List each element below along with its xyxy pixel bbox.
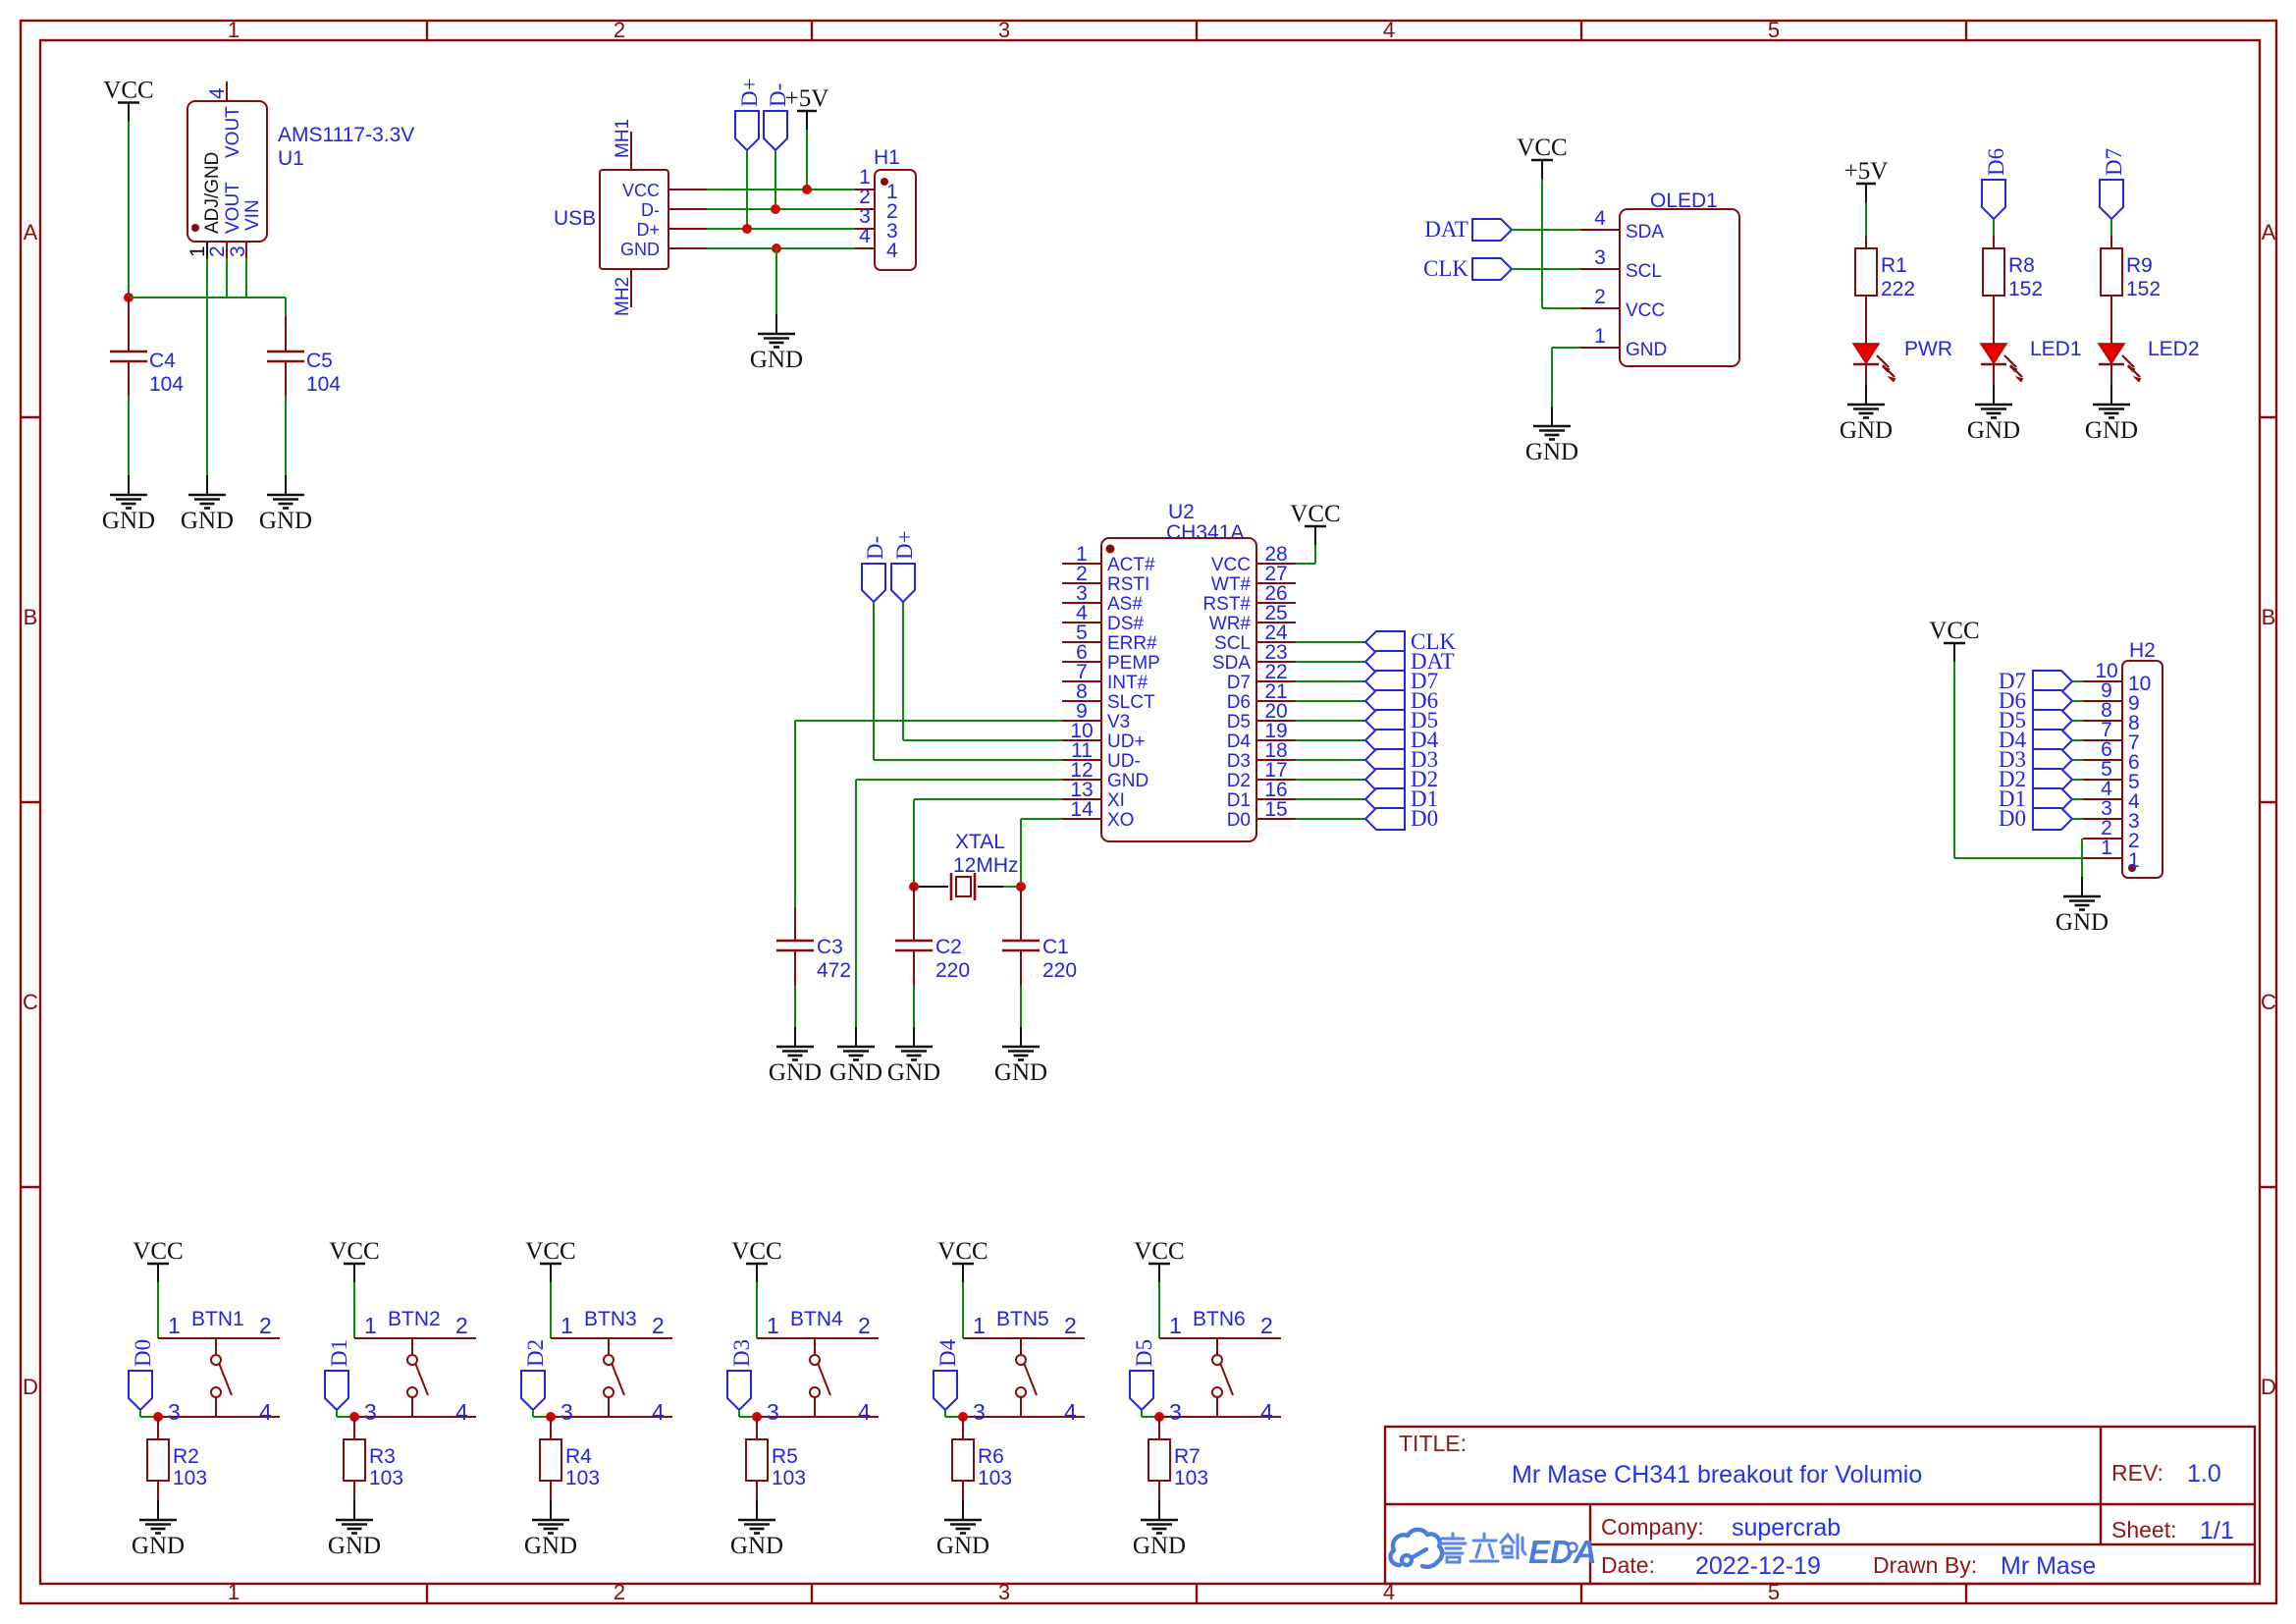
- pin 17 D2: [1256, 779, 1296, 781]
- pin 4 DS#: [1062, 622, 1101, 623]
- svg-text:4: 4: [652, 1399, 665, 1425]
- resistor R1 222: [1855, 236, 1915, 344]
- net flag D+ (U2): [891, 530, 917, 602]
- net flag D5 (H2): [1999, 708, 2072, 732]
- svg-text:D0: D0: [1227, 810, 1251, 831]
- svg-text:4: 4: [206, 87, 229, 99]
- net flag D4: [1365, 728, 1439, 752]
- wire: [1296, 661, 1365, 663]
- net flag D5: [1365, 708, 1438, 732]
- svg-text:D-: D-: [641, 200, 660, 220]
- svg-text:R2: R2: [173, 1445, 199, 1468]
- net flag D0: [1365, 806, 1438, 831]
- svg-text:1: 1: [228, 1580, 240, 1604]
- resistor R8 152: [1983, 236, 2043, 344]
- wire: [707, 189, 855, 190]
- svg-text:R1: R1: [1881, 254, 1907, 277]
- wire: [1542, 179, 1580, 308]
- pushbutton BTN5: [963, 1308, 1085, 1425]
- wire: [128, 396, 130, 475]
- net flag D3 (H2): [1999, 747, 2072, 772]
- svg-text:2: 2: [652, 1313, 665, 1338]
- svg-text:220: 220: [935, 959, 970, 982]
- svg-text:SDA: SDA: [1626, 222, 1664, 243]
- pin 1: [206, 242, 208, 258]
- wire: [1865, 202, 1867, 236]
- wire: [1158, 1282, 1160, 1338]
- svg-text:152: 152: [2008, 278, 2043, 300]
- ground: [2085, 385, 2138, 444]
- wire: [2072, 739, 2083, 741]
- svg-text:103: 103: [369, 1467, 403, 1489]
- net flag D6: [1982, 148, 2008, 219]
- junction: [771, 204, 780, 214]
- svg-text:D3: D3: [1227, 751, 1251, 772]
- svg-text:D5: D5: [1132, 1339, 1156, 1367]
- ground: [1133, 1500, 1186, 1559]
- svg-text:D2: D2: [523, 1339, 548, 1367]
- svg-text:Company:: Company:: [1601, 1514, 1704, 1540]
- svg-text:152: 152: [2126, 278, 2161, 300]
- net flag D+: [735, 78, 762, 150]
- svg-text:1: 1: [561, 1313, 573, 1338]
- svg-text:Sheet:: Sheet:: [2111, 1517, 2177, 1543]
- svg-text:INT#: INT#: [1107, 673, 1148, 693]
- wire: [2072, 779, 2083, 781]
- regulator U1 AMS1117-3.3V: [187, 81, 414, 258]
- pin 9: [2083, 700, 2122, 702]
- net flag D6 (H2): [1999, 688, 2072, 713]
- svg-text:D6: D6: [1984, 148, 2008, 176]
- svg-text:D7: D7: [1227, 673, 1251, 693]
- wire: [1296, 545, 1315, 564]
- wire: [2110, 219, 2112, 236]
- svg-text:4: 4: [1594, 207, 1606, 230]
- ground: [750, 314, 803, 373]
- wire: [2081, 839, 2083, 877]
- svg-text:103: 103: [173, 1467, 207, 1489]
- crystal XTAL 12MHz: [919, 831, 1019, 900]
- ground: [829, 1027, 882, 1086]
- pin 9 V3: [1062, 720, 1101, 722]
- net flag D1: [1365, 786, 1438, 811]
- resistor R6 103: [952, 1417, 1012, 1500]
- svg-text:3: 3: [168, 1399, 181, 1425]
- svg-text:4: 4: [1383, 18, 1395, 42]
- junction: [742, 224, 752, 234]
- wire: [128, 122, 130, 298]
- svg-text:VCC: VCC: [1211, 555, 1251, 575]
- net flag D-: [764, 83, 790, 150]
- wire: [1954, 662, 2083, 858]
- svg-text:3: 3: [767, 1399, 779, 1425]
- wire: [746, 150, 748, 229]
- wire: [1296, 739, 1365, 741]
- svg-text:R9: R9: [2126, 254, 2153, 277]
- ground: [1525, 406, 1578, 465]
- net flag D0 (H2): [1999, 806, 2072, 831]
- resistor R5 103: [746, 1417, 806, 1500]
- svg-text:GND: GND: [1107, 771, 1148, 791]
- svg-text:1: 1: [1169, 1313, 1182, 1338]
- pin 7: [2083, 739, 2122, 741]
- svg-text:1/1: 1/1: [2200, 1517, 2234, 1544]
- svg-text:103: 103: [978, 1467, 1012, 1489]
- svg-text:XO: XO: [1107, 810, 1134, 831]
- pin MH2: [630, 269, 632, 307]
- svg-text:D+: D+: [892, 530, 917, 560]
- pin 3: [2083, 818, 2122, 820]
- capacitor C2 220: [895, 887, 970, 986]
- svg-text:C2: C2: [935, 936, 962, 958]
- svg-text:R7: R7: [1174, 1445, 1201, 1468]
- svg-text:4: 4: [1260, 1399, 1273, 1425]
- svg-text:4: 4: [455, 1399, 468, 1425]
- pin 28 VCC: [1256, 563, 1296, 565]
- svg-text:2: 2: [259, 1313, 272, 1338]
- wire: [140, 1410, 158, 1417]
- pushbutton BTN1: [158, 1308, 280, 1425]
- net flag D3: [727, 1339, 754, 1410]
- svg-text:AS#: AS#: [1107, 594, 1143, 615]
- wire: [756, 1282, 758, 1338]
- resistor R4 103: [540, 1417, 600, 1500]
- wire: [2072, 818, 2083, 820]
- svg-text:GND: GND: [1626, 340, 1667, 360]
- svg-text:3: 3: [998, 1580, 1010, 1604]
- pin 10: [2083, 680, 2122, 682]
- power net VCC (BTN6): [1134, 1238, 1184, 1282]
- svg-text:GND: GND: [620, 240, 660, 259]
- svg-text:BTN4: BTN4: [790, 1308, 843, 1330]
- svg-text:14: 14: [1070, 798, 1094, 821]
- ground: [102, 475, 155, 534]
- svg-text:220: 220: [1042, 959, 1077, 982]
- wire: [1296, 779, 1365, 781]
- svg-text:BTN5: BTN5: [996, 1308, 1049, 1330]
- connector USB: [554, 119, 707, 316]
- svg-text:MH1: MH1: [613, 119, 633, 158]
- svg-text:D1: D1: [1227, 790, 1251, 811]
- net flag D4: [934, 1338, 960, 1410]
- junction: [349, 1412, 359, 1422]
- wire: [707, 228, 855, 230]
- svg-text:3: 3: [1169, 1399, 1182, 1425]
- svg-text:RST#: RST#: [1202, 594, 1251, 615]
- net flag D5: [1130, 1339, 1156, 1410]
- svg-text:1: 1: [767, 1313, 779, 1338]
- svg-text:3: 3: [1594, 246, 1606, 269]
- net flag CLK: [1365, 629, 1456, 654]
- svg-text:R5: R5: [772, 1445, 798, 1468]
- ground: [259, 475, 312, 534]
- pin 6 PEMP: [1062, 661, 1101, 663]
- svg-text:15: 15: [1264, 798, 1287, 821]
- power net VCC (BTN3): [525, 1238, 575, 1282]
- svg-text:104: 104: [306, 373, 341, 396]
- svg-text:CH341A: CH341A: [1166, 521, 1244, 544]
- net flag D7: [1365, 669, 1438, 693]
- wire: [245, 258, 247, 298]
- wire: [2072, 680, 2083, 682]
- pin 2: [2083, 838, 2122, 839]
- wire: [1020, 986, 1022, 1027]
- svg-text:DS#: DS#: [1107, 614, 1144, 634]
- wire: [1296, 798, 1365, 800]
- pin 21 D6: [1256, 700, 1296, 702]
- svg-text:D3: D3: [729, 1339, 754, 1367]
- svg-text:VOUT: VOUT: [223, 182, 243, 234]
- wire: [775, 248, 777, 314]
- pin 16 D1: [1256, 798, 1296, 800]
- IC U2 CH341A: [1062, 501, 1296, 841]
- pin 3: [245, 242, 247, 258]
- pin 6: [2083, 759, 2122, 761]
- wire: [129, 297, 286, 298]
- ground: [524, 1500, 577, 1559]
- ground: [2056, 877, 2109, 936]
- svg-text:D: D: [2261, 1375, 2276, 1399]
- wire: [337, 1410, 354, 1417]
- svg-text:D4: D4: [935, 1338, 960, 1367]
- svg-text:4: 4: [859, 225, 871, 247]
- svg-text:D6: D6: [1227, 692, 1251, 713]
- junction: [153, 1412, 163, 1422]
- svg-text:Mr Mase CH341 breakout for Vol: Mr Mase CH341 breakout for Volumio: [1512, 1461, 1922, 1489]
- svg-text:XTAL: XTAL: [955, 831, 1005, 853]
- svg-text:4: 4: [259, 1399, 272, 1425]
- svg-text:VCC: VCC: [1626, 300, 1665, 321]
- wire: [2072, 720, 2083, 722]
- resistor R3 103: [344, 1417, 403, 1500]
- net flag D7: [2100, 148, 2126, 219]
- wire: [226, 258, 228, 298]
- wire: [2072, 759, 2083, 761]
- svg-text:EDA: EDA: [1528, 1534, 1597, 1570]
- svg-text:MH2: MH2: [613, 277, 633, 316]
- power net VCC (BTN1): [133, 1238, 183, 1282]
- svg-text:D-: D-: [863, 536, 887, 560]
- wire: [2072, 700, 2083, 702]
- net flag D6: [1365, 688, 1438, 713]
- svg-text:2: 2: [614, 18, 625, 42]
- wire: [1296, 818, 1365, 820]
- wire: [157, 1282, 159, 1338]
- svg-text:1: 1: [228, 18, 240, 42]
- svg-text:H2: H2: [2129, 639, 2156, 662]
- pin 1 ACT#: [1062, 563, 1101, 565]
- svg-text:1: 1: [364, 1313, 377, 1338]
- svg-text:Date:: Date:: [1601, 1552, 1655, 1578]
- svg-text:SCL: SCL: [1214, 633, 1251, 654]
- svg-text:3: 3: [364, 1399, 377, 1425]
- wire: [1296, 700, 1365, 702]
- capacitor C1 220: [1002, 887, 1077, 986]
- ground: [1967, 385, 2020, 444]
- junction: [909, 882, 919, 892]
- wire: [1142, 1410, 1159, 1417]
- wire: [1512, 229, 1580, 231]
- svg-text:DAT: DAT: [1424, 217, 1468, 242]
- wire: [913, 986, 915, 1027]
- svg-text:B: B: [2262, 605, 2276, 629]
- power net VCC (BTN5): [937, 1238, 988, 1282]
- svg-text:D+: D+: [737, 78, 762, 107]
- svg-text:D2: D2: [1227, 771, 1251, 791]
- svg-text:R8: R8: [2008, 254, 2035, 277]
- pin 7 INT#: [1062, 680, 1101, 682]
- svg-text:PWR: PWR: [1904, 338, 1952, 360]
- svg-text:AMS1117-3.3V: AMS1117-3.3V: [278, 124, 414, 146]
- pin 24 SCL: [1256, 641, 1296, 643]
- resistor R2 103: [147, 1417, 207, 1500]
- capacitor C4 104: [110, 298, 184, 396]
- wire: [1296, 759, 1365, 761]
- ground: [181, 475, 234, 534]
- power net VCC (H2): [1929, 618, 1979, 662]
- svg-text:VOUT: VOUT: [223, 106, 243, 158]
- svg-text:H1: H1: [874, 146, 900, 169]
- svg-text:BTN3: BTN3: [584, 1308, 637, 1330]
- svg-text:UD+: UD+: [1107, 731, 1146, 752]
- pin 2: [226, 242, 228, 258]
- pushbutton BTN4: [757, 1308, 879, 1425]
- svg-text:D4: D4: [1227, 731, 1252, 752]
- ground: [730, 1500, 783, 1559]
- junction: [802, 185, 812, 194]
- ground: [769, 1027, 822, 1086]
- svg-text:2: 2: [1260, 1313, 1273, 1338]
- wire: [1552, 348, 1580, 406]
- svg-text:TITLE:: TITLE:: [1399, 1431, 1467, 1456]
- connector OLED1: [1580, 189, 1739, 366]
- net flag D2 (H2): [1999, 767, 2072, 791]
- pin 3 AS#: [1062, 602, 1101, 604]
- svg-text:WR#: WR#: [1209, 614, 1252, 634]
- wire: [353, 1282, 355, 1338]
- junction: [772, 244, 781, 253]
- svg-text:1: 1: [2128, 849, 2140, 872]
- svg-text:103: 103: [772, 1467, 806, 1489]
- resistor R7 103: [1148, 1417, 1208, 1500]
- svg-text:WT#: WT#: [1211, 574, 1252, 595]
- svg-text:B: B: [24, 605, 38, 629]
- svg-text:4: 4: [858, 1399, 871, 1425]
- svg-text:D7: D7: [2102, 148, 2126, 176]
- svg-text:4: 4: [1064, 1399, 1077, 1425]
- pin 27 WT#: [1256, 582, 1296, 584]
- wire: [1993, 219, 1995, 236]
- net flag D4 (H2): [1999, 728, 2072, 752]
- svg-text:R4: R4: [565, 1445, 592, 1468]
- logo JLC EDA: [1390, 1530, 1596, 1570]
- pin 2 RSTI: [1062, 582, 1101, 584]
- svg-text:C: C: [2261, 990, 2276, 1014]
- wire: [794, 986, 796, 1027]
- connector H1: [855, 146, 916, 270]
- svg-text:CLK: CLK: [1423, 256, 1468, 281]
- svg-text:supercrab: supercrab: [1732, 1514, 1841, 1542]
- svg-text:3: 3: [561, 1399, 573, 1425]
- pin 18 D3: [1256, 759, 1296, 761]
- pin 25 WR#: [1256, 622, 1296, 623]
- svg-text:3: 3: [973, 1399, 986, 1425]
- wire: [707, 247, 855, 249]
- svg-text:LED1: LED1: [2030, 338, 2082, 360]
- junction: [546, 1412, 556, 1422]
- svg-text:BTN1: BTN1: [191, 1308, 244, 1330]
- svg-text:D+: D+: [636, 220, 660, 240]
- svg-text:C: C: [23, 990, 38, 1014]
- svg-text:222: 222: [1881, 278, 1915, 300]
- net flag D1: [325, 1339, 351, 1410]
- pin 22 D7: [1256, 680, 1296, 682]
- power net +5V (LED column): [1844, 158, 1889, 202]
- net flag CLK: [1423, 256, 1512, 281]
- junction: [1154, 1412, 1164, 1422]
- svg-text:REV:: REV:: [2111, 1460, 2163, 1486]
- net flag D3: [1365, 747, 1438, 772]
- pin 5 ERR#: [1062, 641, 1101, 643]
- wire: [2072, 798, 2083, 800]
- svg-text:2: 2: [1064, 1313, 1077, 1338]
- wire: [962, 1282, 964, 1338]
- pin 5: [2083, 779, 2122, 781]
- svg-text:2: 2: [455, 1313, 468, 1338]
- junction: [124, 293, 133, 302]
- junction: [752, 1412, 762, 1422]
- pin 8 SLCT: [1062, 700, 1101, 702]
- svg-text:12MHz: 12MHz: [953, 854, 1019, 877]
- svg-text:BTN2: BTN2: [388, 1308, 441, 1330]
- wire: [1003, 886, 1021, 888]
- svg-text:2: 2: [1594, 286, 1606, 308]
- svg-text:U1: U1: [278, 147, 304, 170]
- net flag D0: [129, 1339, 155, 1410]
- pin 4: [226, 81, 228, 101]
- svg-text:4: 4: [886, 240, 898, 262]
- svg-text:2022-12-19: 2022-12-19: [1695, 1552, 1821, 1580]
- svg-text:3: 3: [998, 18, 1010, 42]
- svg-text:R3: R3: [369, 1445, 396, 1468]
- wire: [1512, 268, 1580, 270]
- svg-text:Mr Mase: Mr Mase: [2001, 1552, 2096, 1580]
- pin 12 GND: [1062, 779, 1101, 781]
- svg-text:472: 472: [817, 959, 851, 982]
- svg-text:103: 103: [1174, 1467, 1208, 1489]
- pushbutton BTN6: [1159, 1308, 1281, 1425]
- power net VCC (U1 area): [103, 78, 153, 122]
- LED LED2: [2099, 338, 2200, 385]
- pushbutton BTN3: [551, 1308, 672, 1425]
- pin 14 XO: [1062, 818, 1101, 820]
- wire: [945, 1410, 963, 1417]
- pin 11 UD-: [1062, 759, 1101, 761]
- wire: [1021, 819, 1062, 882]
- wire: [914, 799, 1062, 882]
- net flag D2: [1365, 767, 1438, 791]
- svg-text:SDA: SDA: [1212, 653, 1251, 674]
- ground: [1840, 385, 1893, 444]
- svg-text:PEMP: PEMP: [1107, 653, 1160, 674]
- svg-text:RSTI: RSTI: [1107, 574, 1149, 595]
- svg-text:SCL: SCL: [1626, 261, 1662, 282]
- svg-text:2: 2: [206, 245, 229, 257]
- connector H2: [2083, 639, 2163, 878]
- svg-text:VIN: VIN: [242, 199, 263, 231]
- wire: [774, 150, 776, 209]
- wire: [856, 780, 1062, 1027]
